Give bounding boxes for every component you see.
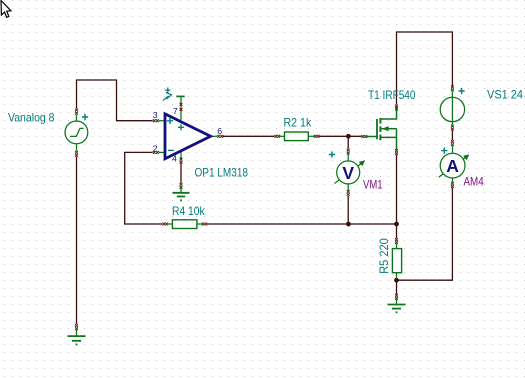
wire W3 R4 right to T1 source node [207, 223, 396, 225]
polarity + of AM4 [441, 148, 447, 154]
input - mark [168, 149, 174, 151]
wire W1 source VG1 top to op-amp pin 3 [77, 80, 153, 121]
pin marks Vanalog top [75, 109, 78, 112]
jumper + mark [165, 88, 170, 93]
pin marks AM4 bottom [451, 182, 454, 185]
wire W14 source VG1 bottom down to ground [76, 157, 78, 324]
svg-text:Vanalog 8: Vanalog 8 [8, 111, 55, 125]
input + mark [167, 118, 173, 124]
power bar for pin 7 [176, 95, 184, 97]
wire W5 R2 to T1 gate [319, 135, 361, 137]
svg-text:V: V [342, 163, 354, 183]
pin marks R2 left [274, 135, 277, 138]
voltage source Vanalog (VG1) [65, 115, 88, 151]
pin marks R4 right [202, 223, 205, 226]
junction node T1 source/R5 [394, 222, 399, 227]
mouse cursor [1, 1, 11, 18]
pin marks VM1 top [347, 149, 350, 152]
polarity + of VM1 [329, 151, 335, 157]
body lead [382, 128, 397, 130]
pin 7 lead from power bar [180, 97, 182, 120]
svg-text:R4 10k: R4 10k [172, 204, 206, 218]
junction node R5 bottom/AM4 [394, 278, 399, 283]
pin marks VS1 top [451, 86, 454, 89]
ground under R5 [388, 294, 406, 313]
wire W10 VS1 bottom to AM4 top [451, 130, 453, 140]
pin 2 lead [159, 151, 165, 153]
svg-text:T1 IRF540: T1 IRF540 [368, 88, 416, 102]
pin marks R5 top [395, 238, 398, 241]
MOSFET T1 IRF540 [367, 106, 397, 152]
junction node gate/VM1 [346, 134, 351, 139]
source lead [381, 129, 397, 151]
svg-text:4: 4 [172, 153, 177, 163]
pin marks op-amp pin 4 [180, 158, 183, 161]
svg-text:AM4: AM4 [464, 175, 484, 189]
pin marks op-amp pin 6 [217, 135, 220, 138]
svg-text:OP1 LM318: OP1 LM318 [195, 166, 249, 180]
pin marks T1 gate [362, 135, 365, 138]
power + mark [178, 124, 184, 130]
pin marks R2 right [314, 135, 317, 138]
polarity + of VS1 [459, 88, 465, 94]
resistor R2 [280, 132, 314, 141]
resistor R4 [168, 220, 202, 229]
svg-text:A: A [446, 156, 459, 176]
gate bar [376, 119, 378, 139]
svg-text:R5 220: R5 220 [377, 238, 391, 274]
pin marks R4 left [162, 223, 165, 226]
voltmeter VM1 [335, 154, 365, 190]
pin marks op-amp pin 2 [153, 151, 156, 154]
pin marks Vanalog bottom [75, 151, 78, 154]
svg-text:VS1 24: VS1 24 [487, 88, 523, 102]
svg-text:7: 7 [173, 106, 178, 116]
svg-text:6: 6 [217, 126, 222, 136]
pin marks AM4 top [451, 140, 454, 143]
wire W9 T1 source down to R5 node [396, 155, 398, 224]
wire W11 AM4 bottom down and left to R5 bottom node [398, 188, 452, 280]
wire W6 gate node down to VM1 top [347, 137, 349, 149]
pin marks op-amp pin 7 [180, 103, 183, 106]
channel segment body [379, 126, 381, 132]
drain lead [381, 106, 397, 120]
op-amp OP1 LM318 [159, 97, 217, 159]
ground under op-amp pin 4 [173, 183, 190, 201]
pin 4 lead [180, 151, 182, 158]
body diode arrow [382, 126, 389, 131]
pin marks T1 drain [395, 105, 398, 108]
svg-text:3: 3 [153, 110, 158, 120]
channel segment drain [379, 118, 381, 124]
triangle body [165, 114, 211, 159]
wire W8 T1 drain up over to VS1 top [397, 32, 453, 104]
wire W15 op-amp pin 4 down to ground [180, 163, 182, 182]
pin marks op-amp pin 3 [153, 119, 156, 122]
voltage source VS1 [440, 91, 464, 124]
svg-text:VM1: VM1 [363, 177, 383, 191]
gate lead [367, 136, 377, 138]
pin marks T1 source [395, 149, 398, 152]
ground under Vanalog [68, 324, 86, 345]
svg-text:R2 1k: R2 1k [284, 116, 313, 130]
polarity + of Vanalog [82, 114, 88, 120]
pin 3 lead [159, 120, 165, 122]
wire W2 op-amp pin 2 feedback loop [125, 152, 162, 224]
wire W13 R5 bottom node to ground [396, 282, 398, 295]
resistor R5 [392, 244, 401, 279]
channel segment source [379, 135, 381, 141]
V+ jumper arrow [163, 92, 172, 100]
pin marks VS1 bottom [451, 125, 454, 128]
ammeter AM4 [439, 146, 470, 182]
junction node feedback/VM1 [346, 222, 351, 227]
pin 6 lead [212, 135, 218, 137]
wire W12 node to R5 top [396, 224, 398, 238]
wire W7 VM1 bottom to feedback node [347, 196, 349, 223]
wire W4 op-amp output pin 6 to R2 [223, 135, 274, 137]
pin marks VM1 bottom [347, 190, 350, 193]
